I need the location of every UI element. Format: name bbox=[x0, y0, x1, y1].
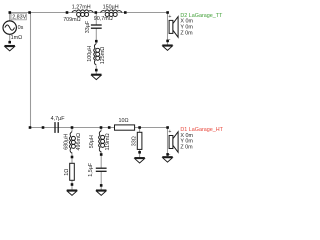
svg-text:10Ω: 10Ω bbox=[119, 118, 129, 124]
wire D1 vertical bbox=[167, 128, 169, 157]
ground (source) bbox=[5, 46, 15, 51]
node dots bottom net bbox=[29, 126, 169, 129]
node dots branch pins bbox=[8, 40, 169, 187]
svg-text:33µF: 33µF bbox=[85, 20, 91, 33]
svg-text:100µH: 100µH bbox=[87, 46, 93, 62]
svg-text:709mΩ: 709mΩ bbox=[63, 17, 81, 23]
svg-text:0s: 0s bbox=[18, 25, 24, 31]
svg-text:1,5µF: 1,5µF bbox=[88, 162, 94, 177]
svg-text:125mΩ: 125mΩ bbox=[100, 47, 106, 65]
inductor L2 150uH bbox=[100, 10, 122, 17]
speaker D2 symbol bbox=[169, 17, 178, 38]
svg-text:Z 0m: Z 0m bbox=[180, 31, 193, 37]
svg-text:119mΩ: 119mΩ bbox=[105, 133, 111, 150]
wire 33uF/100uH shunt branch bbox=[95, 13, 97, 75]
ground (under 1,5uF) bbox=[96, 190, 106, 195]
svg-text:33Ω: 33Ω bbox=[132, 136, 138, 146]
inductor L5 50uH bbox=[99, 131, 105, 153]
svg-text:150µH: 150µH bbox=[103, 4, 119, 10]
inductor L1 1,27mH bbox=[72, 10, 94, 17]
svg-text:1mΩ: 1mΩ bbox=[11, 35, 23, 41]
ground (under D1) bbox=[162, 157, 172, 162]
wire D2 vertical bbox=[167, 13, 169, 46]
ground (under 1ohm) bbox=[67, 190, 77, 195]
inductor L3 100uH bbox=[94, 44, 100, 66]
wire 33ohm branch bbox=[139, 128, 141, 158]
svg-text:4,7µF: 4,7µF bbox=[51, 116, 66, 122]
wire 50uH/1.5uF branch bbox=[100, 128, 102, 190]
svg-text:Z 0m: Z 0m bbox=[180, 145, 193, 151]
speaker D1 symbol bbox=[169, 132, 178, 153]
voltage source V1 bbox=[3, 21, 16, 34]
svg-text:680µH: 680µH bbox=[63, 134, 69, 150]
svg-text:1,27mH: 1,27mH bbox=[72, 4, 91, 10]
inductor L4 680uH bbox=[69, 132, 75, 154]
capacitor C2 4,7uF bbox=[55, 122, 58, 133]
svg-text:50µH: 50µH bbox=[89, 135, 95, 148]
svg-text:2,83V: 2,83V bbox=[12, 14, 26, 20]
capacitor C3 1,5uF bbox=[96, 168, 107, 171]
svg-text:+: + bbox=[168, 14, 171, 20]
wire source-to-lowpass vertical bbox=[30, 13, 32, 128]
resistor R3 33ohm bbox=[137, 132, 142, 149]
wire top net bbox=[10, 12, 168, 14]
svg-text:496mΩ: 496mΩ bbox=[76, 133, 82, 151]
resistor R2 10ohm bbox=[115, 125, 135, 130]
wire bottom net bbox=[31, 127, 168, 129]
resistor R1 1ohm bbox=[70, 163, 75, 180]
svg-text:-: - bbox=[169, 37, 171, 43]
node dots top net bbox=[9, 11, 169, 14]
ground (under 33ohm) bbox=[134, 158, 144, 163]
svg-text:90,7mΩ: 90,7mΩ bbox=[94, 16, 113, 22]
svg-text:1Ω: 1Ω bbox=[64, 169, 70, 176]
ground (under 100uH) bbox=[91, 74, 101, 79]
ground (under D2) bbox=[162, 45, 172, 50]
wire source stubs bbox=[9, 13, 11, 43]
svg-text:+: + bbox=[168, 129, 171, 135]
capacitor C1 33uF bbox=[91, 25, 102, 28]
svg-text:-: - bbox=[169, 152, 171, 158]
wire 680uH/1ohm branch bbox=[71, 128, 73, 190]
value box 2,83V bbox=[11, 13, 26, 20]
